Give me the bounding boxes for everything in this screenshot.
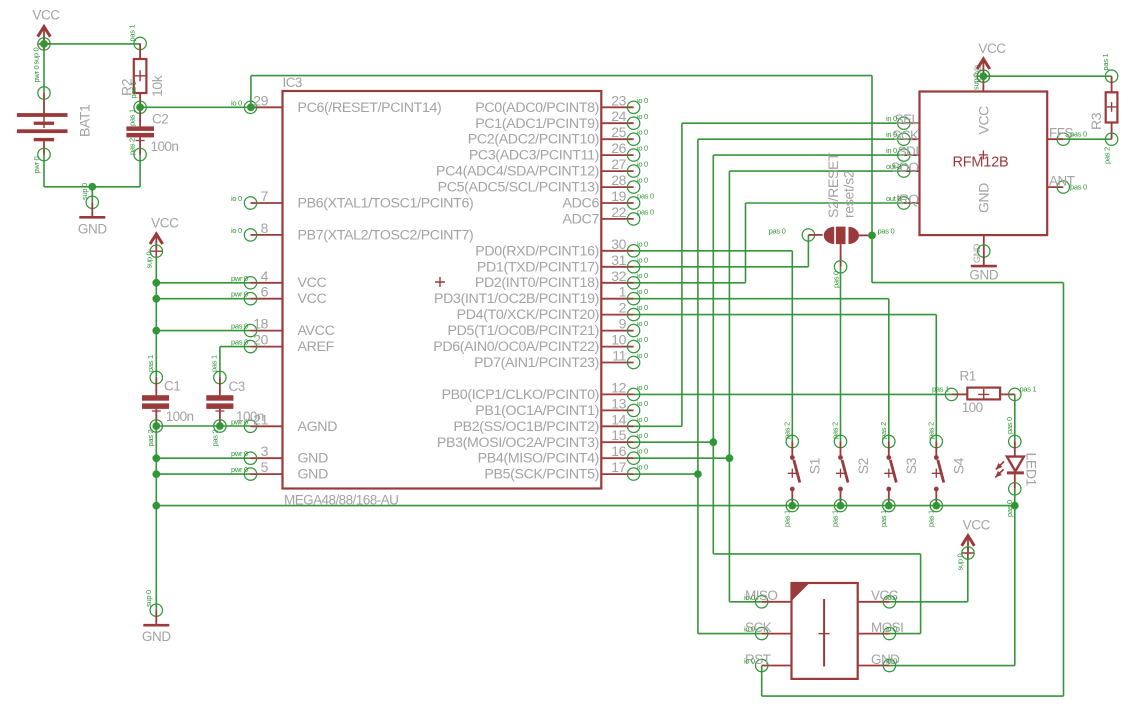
junction S3 bottom [885, 502, 893, 510]
svg-text:17: 17 [611, 459, 626, 475]
wire SEL: RFM SEL to vertical [682, 122, 904, 124]
junction VCC/BAT1 [40, 40, 48, 48]
IC3 pin 11 (PD7(AIN1/PCINT23)) [474, 348, 648, 372]
switch S1 [783, 422, 823, 527]
svg-text:S1: S1 [807, 457, 823, 474]
capacitor C3 100n [206, 355, 264, 446]
svg-text:pas 2: pas 2 [927, 422, 936, 439]
svg-text:R3: R3 [1088, 112, 1104, 130]
IC3 pin 13 (PB1(OC1A/PCINT1)) [475, 395, 648, 419]
junction RFM VDD [980, 72, 988, 80]
svg-text:32: 32 [611, 268, 626, 284]
svg-text:PB7(XTAL2/TOSC2/PCINT7): PB7(XTAL2/TOSC2/PCINT7) [298, 227, 474, 243]
IC3 pin 28 (PC5(ADC5/SCL/PCINT13)) [438, 172, 648, 196]
svg-text:100n: 100n [151, 139, 179, 154]
svg-text:io 0: io 0 [637, 383, 648, 392]
svg-text:pas 1: pas 1 [879, 510, 888, 527]
wire RESET: R2/C2 node to IC3 pin 29 [140, 106, 250, 108]
wire MISO: to ISP MISO pin [729, 601, 761, 603]
IC IC3 body [283, 75, 602, 508]
wire RESET: horizontal below RFM12B [872, 282, 1064, 284]
wire VCC rail vertical (supply to C1) [155, 251, 157, 377]
IC3 pin 6 (VCC) [231, 284, 327, 308]
svg-text:GND: GND [142, 629, 171, 644]
wire RESET: right vertical at x=872 [871, 76, 873, 283]
capacitor C1 100n [142, 355, 194, 446]
svg-text:PB1(OC1A/PCINT1): PB1(OC1A/PCINT1) [475, 403, 599, 419]
svg-text:19: 19 [611, 188, 626, 204]
switch S3 [879, 422, 919, 527]
svg-text:out 0: out 0 [886, 194, 901, 203]
wire IRQ: vertical x=745 [745, 203, 747, 283]
wire VCC to pin 6 [156, 298, 250, 300]
IC3 pin 18 (AVCC) [231, 316, 335, 340]
junction S2 bottom [837, 502, 845, 510]
RFM12B pin IRQ [886, 192, 920, 209]
svg-text:pas 0: pas 0 [231, 322, 248, 331]
IC U RFM12B radio module [920, 92, 1048, 236]
svg-text:100n: 100n [166, 409, 194, 424]
svg-text:pas 2: pas 2 [879, 422, 888, 439]
wire GND: rail down to ISP GND row [1014, 506, 1016, 666]
wire MISO: long vertical x=729 [728, 171, 730, 602]
IC3 pin 15 (PB3(MOSI/OC2A/PCINT3)) [437, 427, 648, 451]
RFM12B pin VDD (top) [972, 64, 990, 91]
svg-text:pas 0: pas 0 [637, 192, 654, 201]
svg-text:io 0: io 0 [637, 431, 648, 440]
wire SCK: long vertical x=698 [697, 139, 699, 633]
wire RESET: top horizontal run [251, 75, 872, 77]
svg-text:PB5(SCK/PCINT5): PB5(SCK/PCINT5) [484, 467, 599, 483]
svg-text:sup 0: sup 0 [145, 252, 154, 269]
wire MOSI: IC3 pin 15 branch [634, 441, 714, 443]
wire RESET: bottom horizontal to ISP RST [762, 695, 1064, 697]
junction C3- AGND [216, 422, 224, 430]
junction pin29 RESET [247, 103, 255, 111]
wire SCK: IC3 pin 17 branch [634, 473, 698, 475]
wire MOSI: long vertical x=713 [712, 155, 714, 554]
svg-text:13: 13 [611, 395, 626, 411]
wire AVCC to pin 18 [156, 330, 250, 332]
svg-text:SEL: SEL [895, 112, 920, 127]
wire GND to pin 5 [156, 473, 250, 475]
wire SCK: to ISP SCK pin [698, 633, 762, 635]
RFM12B pin FFS [1047, 126, 1087, 146]
svg-text:GND: GND [298, 451, 329, 467]
svg-text:pas 2: pas 2 [1103, 147, 1112, 164]
svg-text:7: 7 [261, 188, 269, 204]
svg-text:pas 2: pas 2 [128, 138, 137, 155]
svg-text:PD0(RXD/PCINT16): PD0(RXD/PCINT16) [475, 243, 599, 259]
wire MOSI: horizontal jog [713, 553, 920, 555]
svg-text:pas 1: pas 1 [932, 385, 949, 394]
svg-text:io 0: io 0 [637, 335, 648, 344]
svg-text:PC5(ADC5/SCL/PCINT13): PC5(ADC5/SCL/PCINT13) [438, 180, 599, 196]
ISP pin RST [744, 652, 792, 672]
IC3 pin 25 (PC2(ADC2/PCINT10)) [468, 124, 648, 148]
IC3 pin 19 (ADC6) [563, 188, 654, 212]
resistor R2 10k [119, 25, 166, 108]
svg-text:20: 20 [253, 332, 268, 348]
svg-text:pas 1: pas 1 [146, 355, 155, 372]
svg-text:pas 1: pas 1 [783, 510, 792, 527]
svg-text:pas 1: pas 1 [1101, 54, 1110, 71]
svg-text:io 0: io 0 [637, 415, 648, 424]
RFM12B pin SEL [886, 112, 920, 129]
svg-text:io 0: io 0 [886, 625, 897, 634]
svg-text:pwr 0: pwr 0 [231, 274, 248, 283]
svg-text:pwr 0: pwr 0 [231, 465, 248, 474]
svg-text:9: 9 [619, 316, 627, 332]
junction R2/C2/RESET [136, 103, 144, 111]
svg-text:io 0: io 0 [744, 625, 755, 634]
svg-text:29: 29 [253, 92, 268, 108]
wire AREF: pin 20 to C3 [220, 346, 251, 348]
IC3 pin 7 (PB6(XTAL1/TOSC1/PCINT6)) [231, 188, 473, 212]
svg-text:io 0: io 0 [637, 399, 648, 408]
IC3 pin 4 (VCC) [231, 268, 327, 291]
svg-text:io 0: io 0 [637, 319, 648, 328]
svg-text:VCC: VCC [151, 216, 179, 231]
svg-text:ADC7: ADC7 [563, 211, 600, 227]
svg-text:S4: S4 [951, 457, 967, 474]
svg-text:GND: GND [298, 467, 329, 483]
svg-text:C2: C2 [152, 112, 168, 127]
IC3 pin 5 (GND) [231, 459, 328, 483]
svg-text:RFM12B: RFM12B [952, 155, 1008, 171]
svg-text:io 0: io 0 [637, 255, 648, 264]
ISP pin SCK [744, 620, 792, 640]
svg-text:MEGA48/88/168-AU: MEGA48/88/168-AU [284, 493, 398, 508]
svg-text:sup 0: sup 0 [80, 183, 89, 200]
connector ISP header [792, 583, 858, 679]
junction S1 bottom [788, 502, 796, 510]
svg-text:sup 0: sup 0 [144, 590, 153, 607]
svg-text:16: 16 [611, 443, 626, 459]
svg-text:4: 4 [261, 268, 269, 284]
wire RESET: riser at pin 29 [250, 76, 252, 108]
junction AVCC pin18 [152, 327, 160, 335]
svg-text:pwr 0: pwr 0 [32, 66, 41, 83]
ISP pin MISO [744, 588, 792, 608]
svg-text:2: 2 [619, 300, 627, 316]
svg-text:io 0: io 0 [637, 287, 648, 296]
wire MOSI: RFM SDI to vertical [713, 154, 904, 156]
svg-text:PD3(INT1/OC2B/PCINT19): PD3(INT1/OC2B/PCINT19) [434, 291, 599, 307]
power VCC supply (RFM12B VDD) [977, 41, 1006, 82]
svg-text:pas 1: pas 1 [831, 510, 840, 527]
svg-text:VCC: VCC [963, 518, 991, 533]
svg-text:pas 0: pas 0 [769, 227, 786, 236]
svg-text:io 0: io 0 [886, 593, 897, 602]
wire PD0: pin 30 to S1 [634, 250, 793, 252]
IC3 pin 31 (PD1(TXD/PCINT17)) [477, 252, 648, 276]
svg-text:C3: C3 [229, 379, 245, 394]
svg-text:PD4(T0/XCK/PCINT20): PD4(T0/XCK/PCINT20) [457, 307, 599, 323]
svg-text:reset/s2: reset/s2 [841, 170, 857, 218]
svg-text:in 0: in 0 [886, 130, 897, 139]
svg-text:io 0: io 0 [637, 144, 648, 153]
ISP pin MOSI [858, 620, 904, 640]
svg-text:io 0: io 0 [744, 657, 755, 666]
svg-text:pas 1: pas 1 [927, 510, 936, 527]
junction MOSI pin15 [709, 438, 717, 446]
svg-text:io 0: io 0 [637, 463, 648, 472]
svg-text:pas 1: pas 1 [128, 109, 137, 126]
RFM12B pin GND (bottom) [972, 235, 984, 263]
svg-text:11: 11 [612, 348, 626, 364]
junction S4 bottom [932, 502, 940, 510]
IC3 pin 14 (PB2(SS/OC1B/PCINT2)) [453, 411, 648, 435]
svg-text:8: 8 [261, 220, 269, 236]
IC3 pin 26 (PC3(ADC3/PCINT11)) [469, 140, 648, 164]
svg-text:GND: GND [78, 221, 107, 236]
IC3 pin 27 (PC4(ADC4/SDA/PCINT12)) [436, 156, 648, 180]
svg-text:3: 3 [261, 443, 269, 459]
junction SCK pin17 [694, 470, 702, 478]
svg-text:PB6(XTAL1/TOSC1/PCINT6): PB6(XTAL1/TOSC1/PCINT6) [298, 196, 474, 212]
svg-text:io 0: io 0 [637, 271, 648, 280]
svg-text:IC3: IC3 [283, 75, 302, 90]
svg-text:sup 0: sup 0 [32, 48, 41, 65]
svg-text:SDI: SDI [898, 144, 919, 159]
svg-text:PB2(SS/OC1B/PCINT2): PB2(SS/OC1B/PCINT2) [453, 419, 599, 435]
wire VCC to pin 4 [156, 282, 250, 284]
wire PB0: pin 12 to R1 [634, 393, 952, 395]
wire SEL: IC3 pin 14 branch [634, 425, 682, 427]
RFM12B pin SDO [886, 160, 920, 177]
svg-text:C1: C1 [164, 379, 180, 394]
resistor R1 100 [932, 369, 1036, 416]
wire RESET: ISP RST drop [761, 666, 763, 697]
power VCC supply (IC rail) [150, 216, 179, 258]
IC3 pin 16 (PB4(MISO/PCINT4)) [478, 443, 648, 467]
svg-text:pas 0: pas 0 [1005, 417, 1014, 434]
svg-text:5: 5 [261, 459, 269, 475]
junction S2/RESET right [868, 232, 876, 240]
svg-text:R1: R1 [960, 369, 976, 384]
svg-text:io 0: io 0 [637, 447, 648, 456]
svg-text:PB4(MISO/PCINT4): PB4(MISO/PCINT4) [478, 451, 599, 467]
junction VCC pin6 [152, 295, 160, 303]
wire PD1: pin 31 to S2/RESET left [634, 266, 809, 268]
svg-text:100: 100 [962, 400, 983, 415]
IC3 pin 1 (PD3(INT1/OC2B/PCINT19)) [434, 284, 648, 308]
svg-text:ADC6: ADC6 [563, 196, 600, 212]
ground symbol (IC rail bottom) [142, 604, 171, 644]
svg-text:PC3(ADC3/PCINT11): PC3(ADC3/PCINT11) [469, 148, 599, 164]
svg-text:sup 0: sup 0 [956, 554, 965, 571]
svg-text:1: 1 [619, 284, 627, 300]
svg-text:pas 0: pas 0 [637, 207, 654, 216]
wire SEL: vertical x=682 [681, 123, 683, 426]
svg-text:io 0: io 0 [231, 98, 242, 107]
svg-text:VCC: VCC [298, 291, 327, 307]
wire VCC: supply to BAT1+ and R2 top [44, 43, 140, 45]
wire GND rail vertical (C1- down to GND symbol) [155, 426, 157, 610]
IC3 pin 10 (PD6(AIN0/OC0A/PCINT22)) [433, 332, 648, 356]
svg-text:10k: 10k [149, 74, 165, 97]
svg-text:S2/RESET: S2/RESET [825, 152, 841, 218]
svg-text:PB3(MOSI/OC2A/PCINT3): PB3(MOSI/OC2A/PCINT3) [437, 435, 599, 451]
wire IRQ: RFM IRQ to vertical [746, 202, 904, 204]
wire IRQ: IC3 pin 32 branch [634, 282, 746, 284]
svg-text:io 0: io 0 [637, 351, 648, 360]
svg-text:io 0: io 0 [637, 112, 648, 121]
wire PD3: pin 1 to S3 [634, 298, 889, 300]
junction LED1 cathode [1011, 502, 1019, 510]
junction GND rail left [152, 502, 160, 510]
ISP pin GND [858, 652, 900, 672]
svg-text:12: 12 [611, 379, 626, 395]
svg-text:26: 26 [611, 140, 626, 156]
svg-text:in 0: in 0 [886, 146, 897, 155]
svg-text:io 0: io 0 [744, 593, 755, 602]
svg-text:AVCC: AVCC [298, 323, 335, 339]
svg-text:6: 6 [261, 284, 269, 300]
svg-text:io 0: io 0 [231, 226, 242, 235]
wire VCC: RFM VDD to R3 top [983, 75, 1111, 77]
svg-text:pas 0: pas 0 [832, 271, 841, 288]
wire VCC: ISP VCC pin to supply [889, 601, 967, 603]
svg-text:18: 18 [253, 316, 268, 332]
svg-text:24: 24 [611, 108, 626, 124]
power VCC supply (battery, top left) [32, 8, 60, 51]
wire AGND: C1-/C3- to pin 21 [156, 425, 250, 427]
svg-text:GND: GND [976, 183, 992, 213]
svg-text:pwr 0: pwr 0 [231, 290, 248, 299]
power VCC supply (ISP) [962, 518, 991, 560]
svg-text:io 0: io 0 [637, 96, 648, 105]
svg-text:AGND: AGND [298, 419, 338, 435]
svg-text:out 0: out 0 [886, 162, 901, 171]
svg-text:io 0: io 0 [886, 657, 897, 666]
wire RESET: far right vertical [1063, 283, 1065, 696]
IC3 pin 12 (PB0(ICP1/CLKO/PCINT0)) [442, 379, 648, 403]
svg-text:PC6(/RESET/PCINT14): PC6(/RESET/PCINT14) [298, 100, 442, 116]
wire GND: BAT1- / C2- / gnd rail top-left [43, 155, 45, 187]
svg-text:pas 1: pas 1 [210, 355, 219, 372]
ground symbol at RFM12B GND [969, 245, 998, 283]
svg-text:S2: S2 [855, 457, 871, 474]
IC3 pin 29 (PC6(/RESET/PCINT14)) [231, 92, 441, 116]
wire PD4: pin 2 to S4 [634, 314, 937, 316]
svg-text:PD5(T1/OC0B/PCINT21): PD5(T1/OC0B/PCINT21) [448, 323, 599, 339]
svg-text:PD6(AIN0/OC0A/PCINT22): PD6(AIN0/OC0A/PCINT22) [433, 339, 599, 355]
junction GND rail [88, 183, 96, 191]
ground symbol (battery) [78, 196, 107, 236]
svg-text:pas 1: pas 1 [128, 25, 137, 42]
svg-text:23: 23 [611, 92, 626, 108]
IC3 pin 24 (PC1(ADC1/PCINT9)) [475, 108, 648, 132]
svg-text:PC4(ADC4/SDA/PCINT12): PC4(ADC4/SDA/PCINT12) [436, 164, 599, 180]
svg-text:100n: 100n [236, 409, 264, 424]
svg-text:31: 31 [611, 252, 626, 268]
svg-text:io 0: io 0 [637, 303, 648, 312]
svg-text:pas 0: pas 0 [1070, 130, 1087, 139]
IC3 pin 23 (PC0(ADC0/PCINT8)) [475, 92, 648, 116]
LED LED1 [995, 417, 1039, 517]
IC3 pin 20 (AREF) [231, 332, 335, 356]
svg-text:io 0: io 0 [637, 176, 648, 185]
IC3 pin 2 (PD4(T0/XCK/PCINT20)) [457, 300, 648, 324]
IC3 pin 30 (PD0(RXD/PCINT16)) [475, 236, 648, 259]
svg-text:pwr 0: pwr 0 [231, 449, 248, 458]
svg-text:27: 27 [611, 156, 626, 172]
RFM12B pin SCK [886, 128, 920, 145]
svg-text:io 0: io 0 [637, 128, 648, 137]
svg-text:22: 22 [611, 204, 626, 220]
svg-text:25: 25 [611, 124, 626, 140]
jumper S2/RESET (reset/s2) [769, 152, 895, 288]
svg-text:pwr 0: pwr 0 [32, 157, 41, 174]
IC3 pin 21 (AGND) [231, 411, 337, 435]
svg-text:S3: S3 [903, 457, 919, 474]
junction GND pin5 [152, 470, 160, 478]
svg-text:PD7(AIN1/PCINT23): PD7(AIN1/PCINT23) [474, 355, 599, 371]
wire SCK: RFM SCK to vertical [698, 138, 904, 140]
svg-text:pas 0: pas 0 [231, 338, 248, 347]
svg-text:14: 14 [611, 411, 626, 427]
wire MOSI: right vertical [920, 554, 922, 634]
svg-text:pas 1: pas 1 [1020, 385, 1037, 394]
svg-text:pas 2: pas 2 [211, 430, 220, 447]
svg-text:pas 0: pas 0 [878, 227, 895, 236]
svg-text:PC1(ADC1/PCINT9): PC1(ADC1/PCINT9) [475, 116, 599, 132]
IC3 pin 22 (ADC7) [563, 204, 654, 228]
svg-text:AREF: AREF [298, 339, 335, 355]
svg-text:pas 2: pas 2 [831, 422, 840, 439]
wire GND bottom rail (long horizontal) [156, 505, 1015, 507]
capacitor C2 100n [126, 101, 178, 161]
svg-text:io 0: io 0 [637, 239, 648, 248]
svg-text:pas 0: pas 0 [1070, 183, 1087, 192]
wire GND: LED1 cathode drop [1014, 489, 1016, 506]
svg-text:15: 15 [611, 427, 626, 443]
svg-text:VCC: VCC [976, 106, 992, 135]
svg-text:30: 30 [611, 236, 626, 252]
wire GND: to ISP GND pin [889, 665, 1014, 667]
IC3 pin 32 (PD2(INT0/PCINT18)) [475, 268, 648, 291]
svg-text:10: 10 [611, 332, 626, 348]
svg-text:PD2(INT0/PCINT18): PD2(INT0/PCINT18) [475, 275, 599, 291]
svg-text:pas 2: pas 2 [783, 422, 792, 439]
switch S2 [831, 422, 871, 527]
junction VCC pin4 [152, 279, 160, 287]
svg-text:VCC: VCC [32, 8, 60, 23]
wire MOSI: to ISP MOSI pin [889, 633, 920, 635]
svg-text:pas 1: pas 1 [129, 82, 138, 99]
svg-text:LED1: LED1 [1024, 453, 1040, 487]
svg-text:io 0: io 0 [231, 194, 242, 203]
wire S2/RESET bottom to switch S2 [840, 267, 842, 442]
svg-text:GND: GND [969, 268, 998, 283]
svg-text:PC0(ADC0/PCINT8): PC0(ADC0/PCINT8) [475, 100, 599, 116]
IC3 pin 17 (PB5(SCK/PCINT5)) [484, 459, 648, 483]
svg-text:in 0: in 0 [886, 114, 897, 123]
svg-text:VCC: VCC [298, 275, 327, 291]
wire MISO: RFM SDO to vertical [729, 170, 903, 172]
svg-text:PB0(ICP1/CLKO/PCINT0): PB0(ICP1/CLKO/PCINT0) [442, 387, 599, 403]
IC3 pin 9 (PD5(T1/OC0B/PCINT21)) [448, 316, 648, 340]
svg-text:PD1(TXD/PCINT17): PD1(TXD/PCINT17) [477, 259, 599, 275]
battery BAT1 [17, 66, 93, 174]
svg-text:PC2(ADC2/PCINT10): PC2(ADC2/PCINT10) [468, 132, 599, 148]
resistor R3 [1088, 54, 1118, 164]
wire R1 to LED1 anode [1014, 394, 1016, 441]
junction GND pin3 [152, 454, 160, 462]
wire MISO: IC3 pin 16 branch [634, 457, 730, 459]
